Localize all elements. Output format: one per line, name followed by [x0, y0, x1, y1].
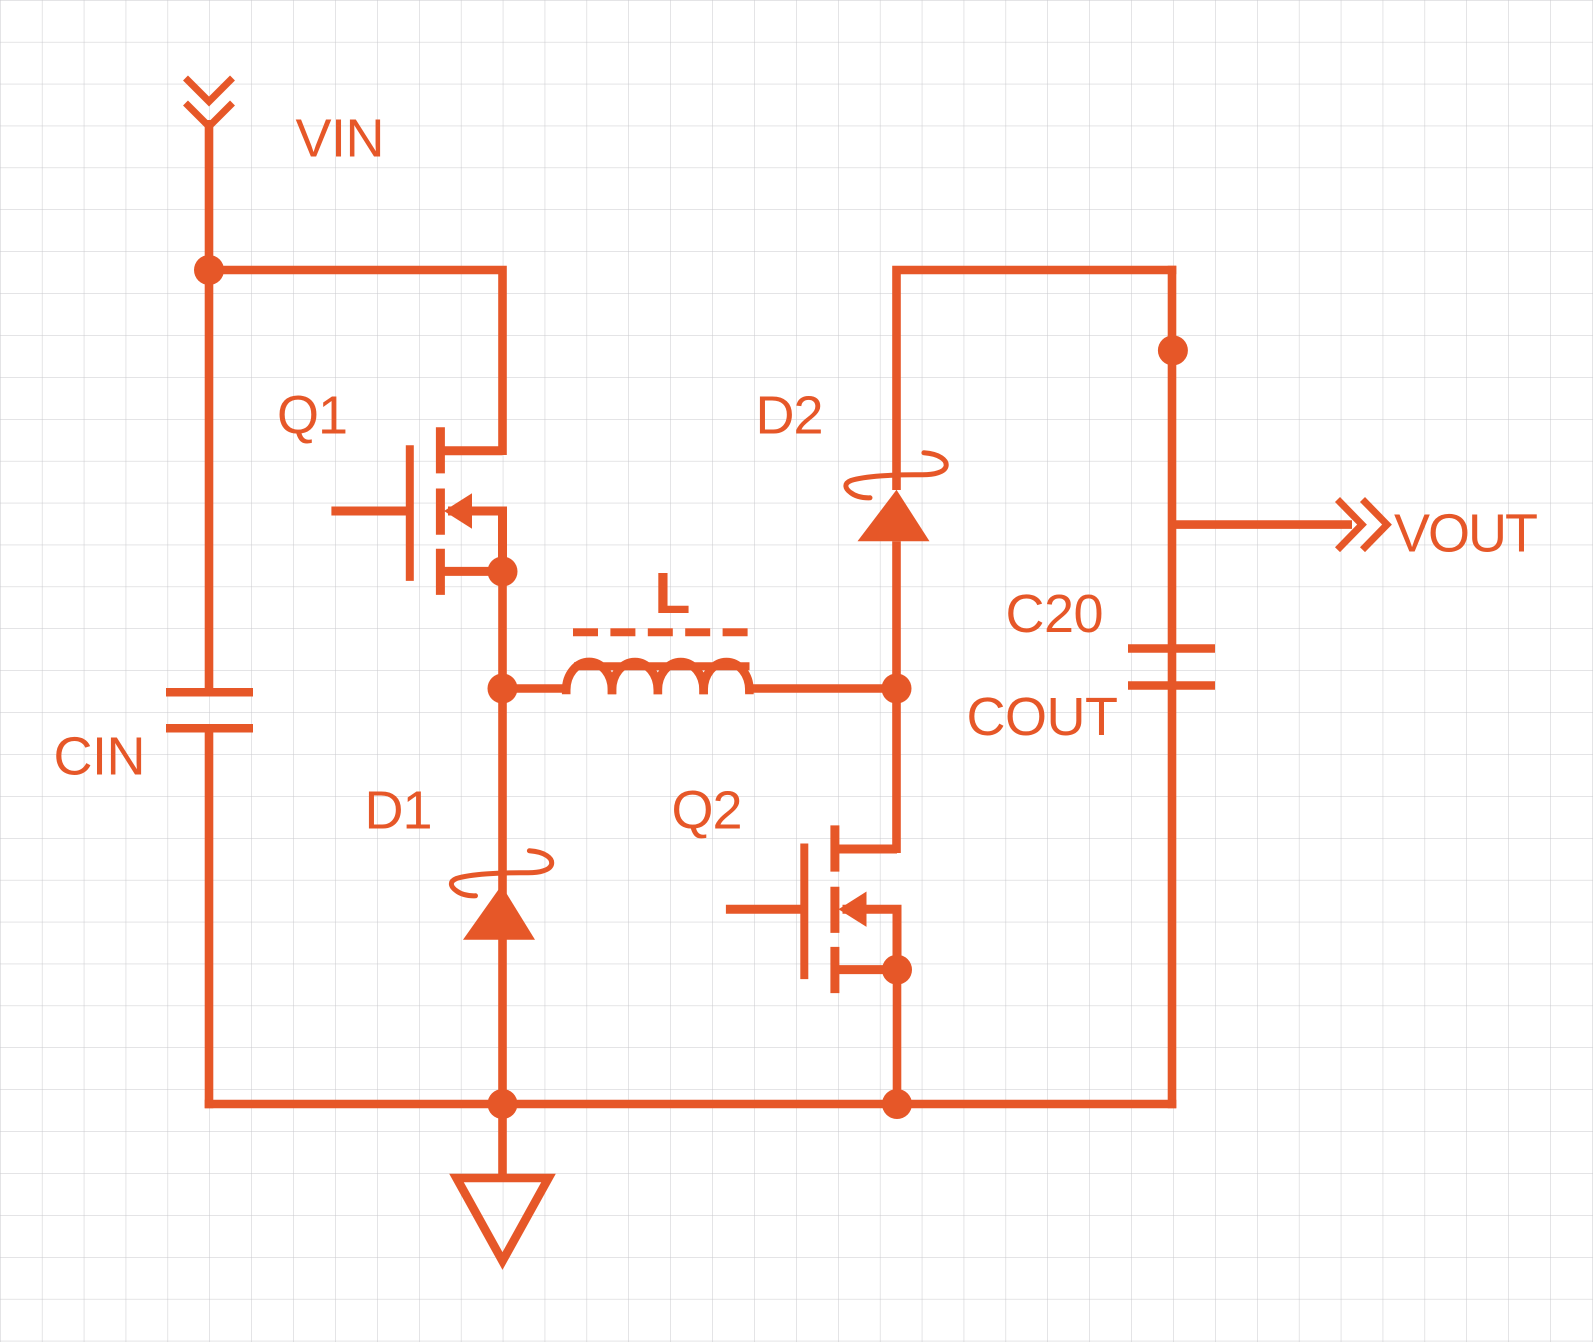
wire VOUT tap [1172, 520, 1352, 529]
junction node Q1 source [488, 557, 518, 587]
wire CIN bottom plate down to bottom rail [205, 728, 214, 1108]
junction node output rail [1158, 335, 1188, 365]
transistor Q1 [331, 427, 502, 595]
wire VIN stem down to CIN top plate [205, 120, 214, 692]
junction node switch left [488, 674, 518, 704]
svg-text:CIN: CIN [54, 727, 146, 787]
svg-text:L: L [655, 561, 690, 625]
svg-text:Q1: Q1 [277, 386, 347, 446]
transistor Q2 [726, 825, 897, 993]
svg-text:D2: D2 [756, 386, 823, 446]
wire switch node to Q2 drain [892, 689, 901, 854]
wire top-left: VIN node to Q1 drain [209, 270, 503, 455]
svg-text:C20: C20 [1006, 584, 1104, 644]
diode D2 swirl cathode [846, 453, 946, 498]
port VOUT chevron symbol [1338, 500, 1388, 550]
wire output rail right side [1168, 266, 1177, 1109]
inductor L [503, 662, 897, 690]
wire D2 cathode up and right to output rail, down to bottom rail [897, 270, 1177, 490]
capacitor COUT plates [1128, 649, 1215, 686]
wire Q2 source to bottom rail [893, 970, 902, 1104]
diode D1 swirl cathode [451, 851, 551, 896]
svg-text:VOUT: VOUT [1394, 504, 1537, 564]
ground symbol [457, 1178, 549, 1261]
wire switch node to D2 anode [892, 541, 901, 688]
diode D2 [858, 490, 930, 542]
diode D1 [463, 885, 535, 940]
svg-text:D1: D1 [365, 781, 432, 841]
inductor L core dashed line [573, 628, 750, 636]
svg-text:COUT: COUT [967, 687, 1118, 747]
wire Q1 source to switch node and through D1 to bottom rail [498, 572, 507, 1105]
ground wire stub [498, 1104, 507, 1180]
capacitor CIN [166, 692, 253, 728]
junction node switch right [882, 674, 912, 704]
junction node ground [488, 1089, 518, 1119]
wire bottom rail [205, 1100, 1177, 1109]
port VIN chevron symbol [186, 78, 233, 127]
svg-text:Q2: Q2 [672, 781, 742, 841]
junction node Q2 source [882, 955, 912, 985]
junction node VIN [194, 255, 224, 285]
svg-text:VIN: VIN [296, 109, 385, 169]
junction node Q2 bottom [882, 1089, 912, 1119]
